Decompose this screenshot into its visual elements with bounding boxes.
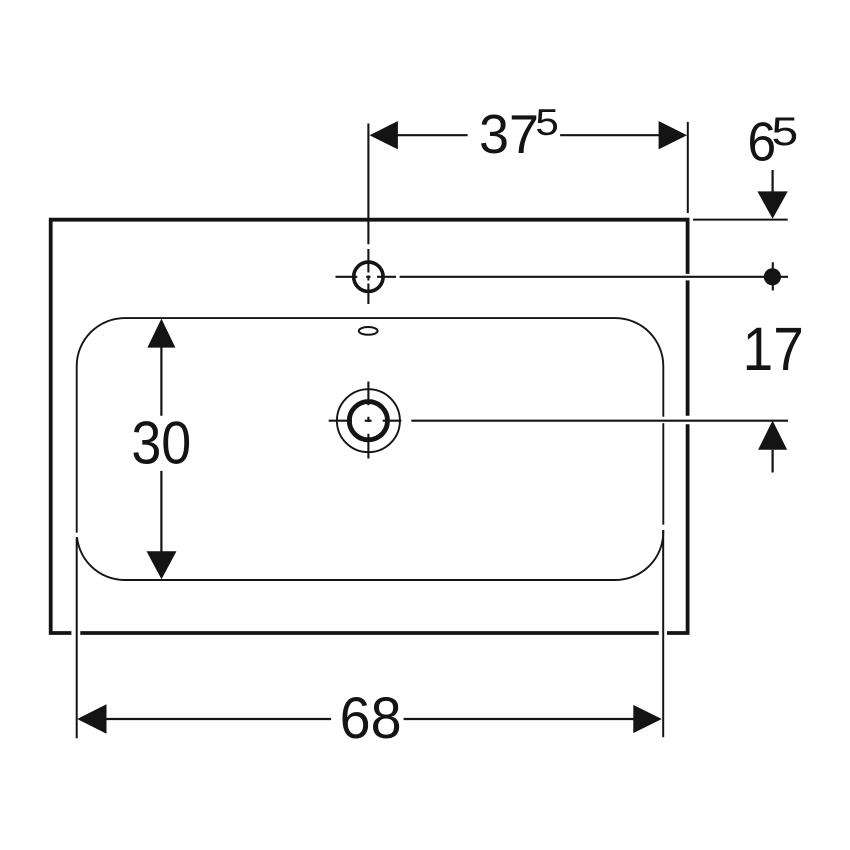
svg-text:30: 30 (131, 409, 191, 477)
dimension 37.5 left arrow (370, 121, 398, 149)
svg-text:17: 17 (743, 316, 804, 384)
dimension 68 left extension line (76, 537, 78, 738)
drain centerline horizontal (329, 420, 788, 422)
svg-text:5: 5 (772, 110, 799, 154)
svg-text:37: 37 (479, 105, 539, 165)
svg-text:68: 68 (340, 687, 402, 751)
svg-text:5: 5 (535, 103, 558, 144)
top reference line (693, 219, 788, 221)
overflow slot (359, 327, 378, 335)
label 30 (131, 409, 191, 477)
dimension 68 right extension line (662, 530, 664, 737)
drain centerline vertical (367, 382, 369, 459)
dimension 30 line (160, 347, 162, 552)
dimension 30 down arrow (147, 551, 177, 579)
tap hole centerline vertical (367, 124, 369, 305)
dimension 37.5 right arrow (659, 121, 687, 149)
label 68 (340, 687, 402, 751)
drain waste ring (349, 402, 387, 440)
label 6.5 (747, 110, 798, 173)
drain outer circle (337, 389, 400, 452)
dimension 68 right arrow (633, 705, 662, 733)
label 17 (743, 316, 804, 384)
washbasin outer edge (51, 220, 688, 633)
dimension 6.5 arrow (757, 170, 787, 219)
dimension 68 line (104, 718, 635, 720)
label 37.5 (479, 103, 559, 166)
dimension 37.5 line (396, 134, 660, 136)
dimension 30 up arrow (147, 319, 175, 348)
tap hole centerline horizontal (336, 276, 789, 278)
tap centre dot marker (764, 262, 781, 290)
dimension 68 left arrow (77, 704, 106, 733)
dimension 17 up arrow (758, 421, 787, 473)
tap hole (354, 262, 383, 291)
basin bowl outline (74, 318, 666, 580)
dimension 37.5 right extension line (687, 122, 689, 213)
